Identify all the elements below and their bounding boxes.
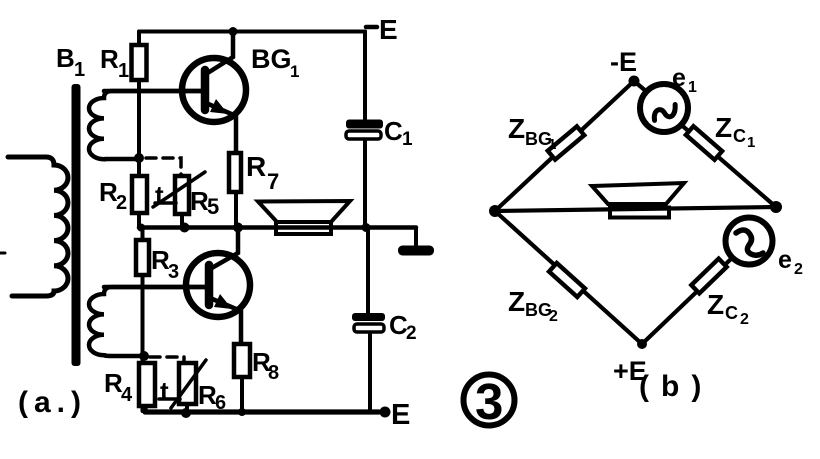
wire ground drop — [414, 228, 418, 247]
wire bottom +E rail — [145, 406, 379, 412]
svg-text:(b): (b) — [639, 370, 713, 403]
t underline upper — [155, 201, 176, 205]
svg-text:t: t — [160, 376, 169, 406]
resistor R1 — [132, 45, 147, 80]
svg-text:6: 6 — [215, 392, 226, 414]
dashed link t-R6 — [150, 357, 184, 362]
node R7/BG2 mid rail — [233, 223, 243, 233]
transformer B1 core — [72, 84, 81, 366]
resistor R4 — [139, 363, 155, 406]
capacitor C2 — [352, 313, 385, 332]
t underline lower — [159, 397, 180, 401]
svg-text:e: e — [672, 64, 686, 92]
transistor BG2 — [104, 253, 250, 317]
source e2 — [726, 218, 773, 265]
wire e1 to right node — [678, 122, 776, 207]
svg-text:4: 4 — [121, 384, 133, 406]
svg-text:2: 2 — [794, 261, 803, 278]
svg-text:1: 1 — [118, 60, 129, 82]
svg-text:C: C — [733, 126, 746, 146]
node right — [770, 201, 782, 213]
wire top -E rail — [139, 30, 365, 34]
transformer secondary winding lower — [89, 287, 205, 356]
node +E bottom — [637, 339, 647, 349]
svg-text:2: 2 — [406, 323, 417, 344]
svg-text:C: C — [384, 116, 403, 146]
svg-text:E: E — [379, 14, 398, 45]
resistor R6 (thermistor) — [179, 363, 196, 404]
transistor BG1 — [104, 58, 246, 122]
wire left node to right node — [495, 207, 776, 211]
svg-text:(a.): (a.) — [18, 386, 87, 419]
transformer B1 primary winding — [8, 157, 68, 296]
impedance ZC1 box — [686, 126, 722, 160]
resistor R5 (thermistor) — [175, 176, 189, 214]
svg-text:C: C — [725, 303, 738, 323]
svg-text:B: B — [56, 43, 75, 73]
wire lower vertical R3-R4 line — [141, 228, 145, 412]
svg-text:2: 2 — [549, 308, 558, 325]
resistor R8 — [234, 344, 250, 377]
label -E top — [366, 25, 377, 30]
speaker (circuit a) — [258, 201, 350, 234]
wire mid rail (speaker rail) — [139, 225, 416, 230]
svg-text:Z: Z — [508, 286, 525, 317]
svg-text:e: e — [778, 246, 792, 274]
wire C line upper — [363, 32, 367, 120]
wire R5 bottom lead — [180, 214, 184, 228]
wire top node to ZBG1 to left node — [495, 81, 634, 211]
figure number 3 circled — [464, 373, 515, 430]
R6 slash — [171, 360, 206, 408]
svg-text:1: 1 — [74, 59, 85, 81]
wire left vertical R1-R2 line — [137, 32, 141, 228]
wire BG2 collector to mid rail — [210, 228, 238, 270]
wire top node to e1 — [634, 81, 647, 92]
svg-text:3: 3 — [475, 373, 503, 430]
wire BG1 collector to top rail — [206, 32, 233, 75]
impedance ZC2 box — [691, 259, 726, 294]
node R2 mid rail — [137, 224, 145, 232]
svg-text:-E: -E — [610, 47, 637, 77]
dashed link t-R5 — [146, 158, 181, 175]
wire mid rail to C2 — [366, 228, 370, 314]
node lower coil bottom — [139, 351, 149, 361]
svg-text:5: 5 — [207, 194, 219, 219]
svg-text:2: 2 — [116, 192, 127, 214]
svg-text:1: 1 — [747, 134, 755, 151]
wire R7 bottom — [234, 192, 238, 228]
svg-text:1: 1 — [688, 79, 697, 96]
svg-text:Z: Z — [508, 113, 525, 144]
svg-text:E: E — [391, 399, 410, 431]
wire bottom node to e2 — [642, 258, 732, 344]
svg-text:t: t — [155, 180, 164, 210]
svg-text:1: 1 — [402, 129, 413, 150]
speaker (bridge) — [592, 183, 684, 218]
svg-text:BG: BG — [251, 44, 292, 74]
ground symbol — [398, 246, 434, 256]
wire R8 bottom — [240, 377, 244, 412]
impedance ZBG1 box — [548, 126, 585, 159]
svg-text:Z: Z — [715, 112, 732, 143]
wire left node to bottom node — [495, 211, 642, 344]
impedance ZBG2 box — [549, 263, 585, 297]
node -E top — [629, 76, 640, 87]
node upper coil bottom — [134, 153, 144, 163]
node top rail / BG1 collector — [229, 27, 238, 36]
wire BG1 emitter to R7 — [206, 103, 236, 153]
node +E terminal — [380, 407, 391, 418]
source e1 — [640, 84, 688, 132]
wire BG2 emitter to R8 — [210, 298, 241, 344]
svg-text:BG: BG — [525, 300, 552, 320]
node R8 bottom rail — [238, 408, 246, 416]
resistor R7 — [229, 153, 241, 192]
wire C1 to mid rail — [363, 140, 367, 228]
R5 slash — [153, 172, 205, 207]
svg-text:3: 3 — [168, 261, 179, 283]
svg-text:7: 7 — [267, 169, 279, 194]
node C line mid rail — [362, 223, 371, 232]
node left — [489, 205, 501, 217]
svg-text:Z: Z — [707, 289, 724, 320]
resistor R2 — [132, 176, 147, 213]
node R5 mid rail — [180, 223, 190, 233]
capacitor C1 — [346, 120, 383, 140]
transformer secondary winding upper — [89, 91, 201, 159]
svg-text:1: 1 — [290, 62, 299, 81]
wire C2 to bottom rail — [368, 332, 372, 412]
wire R6 bottom lead — [185, 404, 189, 413]
svg-text:R: R — [246, 151, 266, 182]
node R6 bottom rail — [181, 408, 191, 418]
svg-text:2: 2 — [740, 311, 749, 328]
resistor R3 — [136, 240, 149, 275]
svg-text:R: R — [100, 44, 119, 74]
wire primary stub tick — [0, 252, 5, 255]
svg-text:1: 1 — [548, 136, 556, 153]
svg-text:8: 8 — [268, 362, 279, 384]
